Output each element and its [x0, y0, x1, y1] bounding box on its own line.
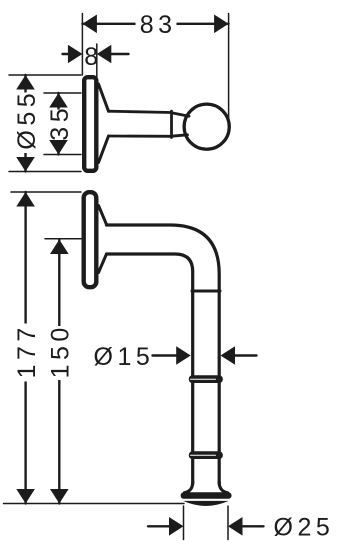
dimension line 55 [24, 75, 26, 172]
extension line bottom (dims 177/150) [4, 503, 185, 505]
extension line rosette top (dim 177) [11, 191, 81, 193]
extension line plate top (dim 55) [9, 74, 81, 76]
extension line ball tangent (dim 83) [228, 14, 230, 120]
dimension line 83 [82, 23, 228, 25]
hook stem top edge [109, 111, 172, 112]
holder arm outer edge and elbow [107, 225, 220, 484]
svg-text:8: 8 [84, 43, 98, 71]
hook cone top edge [99, 84, 109, 111]
svg-text:Ø25: Ø25 [274, 513, 335, 541]
foot base bar [181, 492, 232, 499]
dimension line 35 [57, 93, 59, 155]
hook neck bottom edge [172, 135, 188, 136]
svg-text:150: 150 [47, 323, 75, 378]
dimension line 177 [24, 192, 26, 504]
extension line foot left (dim 25) [183, 506, 185, 540]
extension line plate bottom (dim 55) [9, 171, 81, 173]
extension line plate right (dim 8) [96, 44, 98, 77]
hook neck top edge [172, 113, 190, 117]
extension line cone top (dim 35) [44, 92, 81, 94]
svg-text:177: 177 [13, 323, 41, 378]
hook wall plate [84, 77, 96, 171]
dimension 25: right arrow [228, 517, 243, 536]
extension line cone bottom (dim 35) [44, 154, 81, 156]
holder cone top edge [99, 206, 107, 225]
svg-text:Ø55: Ø55 [13, 89, 41, 150]
svg-text:83: 83 [140, 11, 177, 39]
holder rosette [84, 192, 97, 287]
collar ring upper [189, 375, 223, 383]
dimension 8 (plate thickness) [63, 53, 71, 55]
holder arm inner edge and elbow [107, 254, 193, 484]
foot flare left [185, 482, 193, 493]
dimension 15: right arrow [221, 346, 236, 365]
dimension line 150 [58, 240, 60, 504]
hook stem bottom edge [109, 135, 172, 138]
dimension 15: left arrow [153, 354, 179, 356]
foot flare right [219, 482, 227, 493]
foot bottom lens [183, 501, 229, 506]
svg-text:Ø15: Ø15 [94, 343, 155, 371]
collar ring lower [189, 451, 223, 459]
extension line foot right (dim 25) [227, 506, 229, 540]
pipe joint line [192, 290, 220, 293]
dimension 25: left arrow [148, 525, 170, 527]
svg-text:35: 35 [46, 104, 74, 141]
hook ball [184, 104, 229, 149]
hook stem end cap [170, 111, 173, 137]
extension line arm axis (dim 150) [45, 238, 81, 240]
extension line left (wall face, dim 83/8) [81, 14, 83, 76]
hook cone bottom edge [99, 136, 109, 163]
holder cone bottom edge [99, 254, 107, 273]
